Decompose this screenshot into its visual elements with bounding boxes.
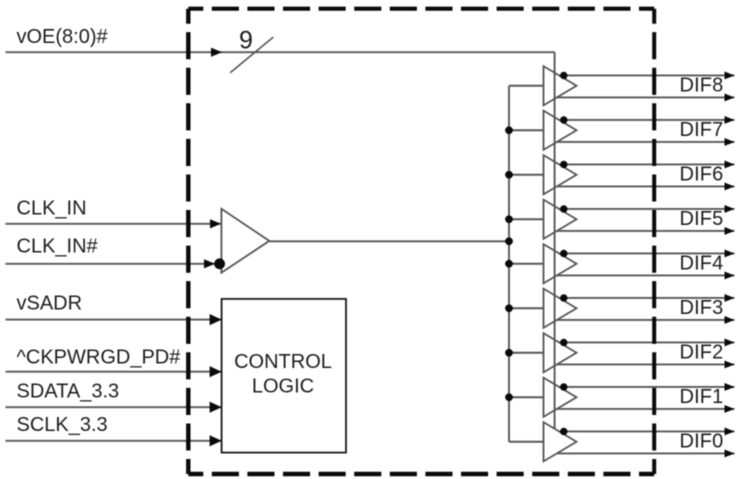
wire DIF4 complement output bbox=[557, 274, 735, 276]
wire DIF7 true output bbox=[559, 119, 735, 121]
wire SCLK_3.3 bbox=[6, 440, 222, 442]
output buffer DIF0 bbox=[544, 422, 577, 461]
arrowhead DIF8 complement output bbox=[725, 94, 735, 102]
arrowhead DIF6 true output bbox=[725, 161, 735, 169]
arrowhead DIF1 complement output bbox=[725, 405, 735, 413]
wire DIF8 true output bbox=[559, 74, 735, 76]
arrowhead ^CKPWRGD_PD# bbox=[210, 366, 222, 377]
arrowhead DIF3 true output bbox=[725, 294, 735, 302]
svg-text:DIF6: DIF6 bbox=[680, 163, 724, 185]
arrowhead SCLK_3.3 bbox=[210, 435, 222, 446]
chip boundary dashed box right edge bbox=[652, 9, 656, 474]
arrowhead DIF7 true output bbox=[725, 116, 735, 124]
svg-text:DIF1: DIF1 bbox=[680, 386, 724, 408]
wire clock branch to DIF5 buffer bbox=[509, 218, 544, 220]
wire DIF5 true output bbox=[559, 208, 735, 210]
wire vOE enable vertical bus through output buffers bbox=[554, 52, 556, 429]
svg-text:CLK_IN: CLK_IN bbox=[17, 198, 87, 220]
wire DIF1 true output bbox=[559, 386, 735, 388]
svg-text:9: 9 bbox=[239, 27, 253, 55]
wire DIF6 true output bbox=[559, 163, 735, 165]
output buffer DIF3 bbox=[544, 289, 577, 328]
wire DIF7 complement output bbox=[557, 141, 735, 143]
junction dot enable tap DIF3 bbox=[560, 294, 567, 301]
output buffer DIF7 bbox=[544, 111, 577, 150]
svg-text:CONTROL: CONTROL bbox=[234, 351, 332, 373]
wire SDATA_3.3 bbox=[6, 406, 222, 408]
svg-text:vSADR: vSADR bbox=[17, 292, 83, 314]
wire clock branch to DIF0 buffer bbox=[509, 441, 544, 443]
arrowhead DIF1 true output bbox=[725, 383, 735, 391]
wire DIF2 complement output bbox=[557, 363, 735, 365]
wire DIF3 true output bbox=[559, 297, 735, 299]
arrowhead DIF4 complement output bbox=[725, 272, 735, 280]
arrowhead vSADR bbox=[210, 314, 222, 325]
wire vOE(8:0)# bus horizontal bbox=[6, 51, 555, 53]
junction dot branch DIF6 bbox=[505, 171, 513, 179]
arrowhead SDATA_3.3 bbox=[210, 402, 222, 413]
output buffer DIF4 bbox=[544, 244, 577, 283]
output buffer DIF5 bbox=[544, 200, 577, 239]
svg-text:vOE(8:0)#: vOE(8:0)# bbox=[17, 26, 109, 48]
arrowhead DIF0 true output bbox=[725, 428, 735, 436]
junction dot enable tap DIF6 bbox=[560, 161, 567, 168]
svg-text:DIF4: DIF4 bbox=[680, 252, 724, 274]
svg-text:^CKPWRGD_PD#: ^CKPWRGD_PD# bbox=[17, 346, 182, 368]
wire clock branch to DIF2 buffer bbox=[509, 352, 544, 354]
arrowhead DIF6 complement output bbox=[725, 183, 735, 191]
wire clock distribution vertical bus bbox=[508, 86, 510, 442]
junction dot enable tap DIF0 bbox=[560, 428, 567, 435]
wire CLK_IN bbox=[6, 223, 222, 225]
arrowhead DIF2 complement output bbox=[725, 361, 735, 369]
svg-text:SCLK_3.3: SCLK_3.3 bbox=[17, 414, 108, 436]
arrowhead CLK_IN bbox=[210, 219, 221, 228]
input buffer U1 (differential clock receiver) bbox=[221, 209, 269, 273]
arrowhead DIF2 true output bbox=[725, 339, 735, 347]
wire clock branch to DIF6 buffer bbox=[509, 174, 544, 176]
inverting-input dot on CLK_IN# at U1 bbox=[214, 258, 225, 269]
output buffer DIF6 bbox=[544, 155, 577, 194]
output buffer DIF8 bbox=[544, 66, 577, 105]
junction dot branch DIF2 bbox=[505, 349, 513, 357]
junction dot enable tap DIF7 bbox=[560, 116, 567, 123]
wire DIF6 complement output bbox=[557, 185, 735, 187]
svg-text:DIF5: DIF5 bbox=[680, 208, 724, 230]
wire CLK_IN# bbox=[6, 263, 222, 265]
junction dot enable tap DIF2 bbox=[560, 339, 567, 346]
junction dot clock node bbox=[505, 237, 513, 245]
chip boundary dashed box top edge bbox=[188, 7, 654, 11]
junction dot enable tap DIF8 bbox=[560, 72, 567, 79]
arrowhead DIF5 complement output bbox=[725, 227, 735, 235]
svg-text:CLK_IN#: CLK_IN# bbox=[17, 235, 99, 257]
wire clock branch to DIF1 buffer bbox=[509, 396, 544, 398]
output buffer DIF1 bbox=[544, 378, 577, 417]
svg-text:DIF3: DIF3 bbox=[680, 297, 724, 319]
svg-text:SDATA_3.3: SDATA_3.3 bbox=[17, 380, 120, 402]
wire ^CKPWRGD_PD# bbox=[6, 371, 222, 373]
output buffer DIF2 bbox=[544, 333, 577, 372]
wire clock output of U1 to distribution node bbox=[269, 240, 509, 242]
arrowhead DIF4 true output bbox=[725, 250, 735, 258]
wire DIF3 complement output bbox=[557, 319, 735, 321]
arrowhead DIF8 true output bbox=[725, 72, 735, 80]
bus width slash bbox=[230, 37, 273, 73]
svg-text:DIF0: DIF0 bbox=[680, 430, 724, 452]
arrowhead CLK_IN# bbox=[204, 259, 215, 268]
svg-text:DIF7: DIF7 bbox=[680, 119, 724, 141]
arrowhead DIF3 complement output bbox=[725, 316, 735, 324]
wire DIF8 complement output bbox=[557, 96, 735, 98]
junction dot enable tap DIF4 bbox=[560, 250, 567, 257]
wire clock branch to DIF3 buffer bbox=[509, 307, 544, 309]
arrowhead on vOE bus bbox=[211, 48, 222, 57]
svg-text:LOGIC: LOGIC bbox=[252, 375, 314, 397]
wire clock branch to DIF4 buffer bbox=[509, 263, 544, 265]
wire DIF2 true output bbox=[559, 341, 735, 343]
arrowhead DIF7 complement output bbox=[725, 138, 735, 146]
CONTROL LOGIC block bbox=[222, 299, 346, 453]
svg-text:DIF2: DIF2 bbox=[680, 341, 724, 363]
junction dot enable tap DIF1 bbox=[560, 383, 567, 390]
junction dot branch DIF4 bbox=[505, 260, 513, 268]
chip boundary dashed box bottom edge bbox=[188, 472, 654, 477]
wire DIF0 true output bbox=[559, 430, 735, 432]
chip boundary dashed box left edge bbox=[186, 9, 190, 474]
wire DIF4 true output bbox=[559, 252, 735, 254]
svg-text:DIF8: DIF8 bbox=[680, 74, 724, 96]
junction dot branch DIF3 bbox=[505, 304, 513, 312]
wire clock branch to DIF8 buffer bbox=[509, 85, 544, 87]
junction dot branch DIF1 bbox=[505, 393, 513, 401]
wire DIF5 complement output bbox=[557, 230, 735, 232]
arrowhead DIF5 true output bbox=[725, 205, 735, 213]
junction dot enable tap DIF5 bbox=[560, 205, 567, 212]
wire DIF1 complement output bbox=[557, 408, 735, 410]
junction dot branch DIF7 bbox=[505, 126, 513, 134]
junction dot branch DIF5 bbox=[505, 215, 513, 223]
wire vSADR bbox=[6, 319, 222, 321]
wire DIF0 complement output bbox=[557, 452, 735, 454]
arrowhead DIF0 complement output bbox=[725, 450, 735, 458]
wire clock branch to DIF7 buffer bbox=[509, 129, 544, 131]
